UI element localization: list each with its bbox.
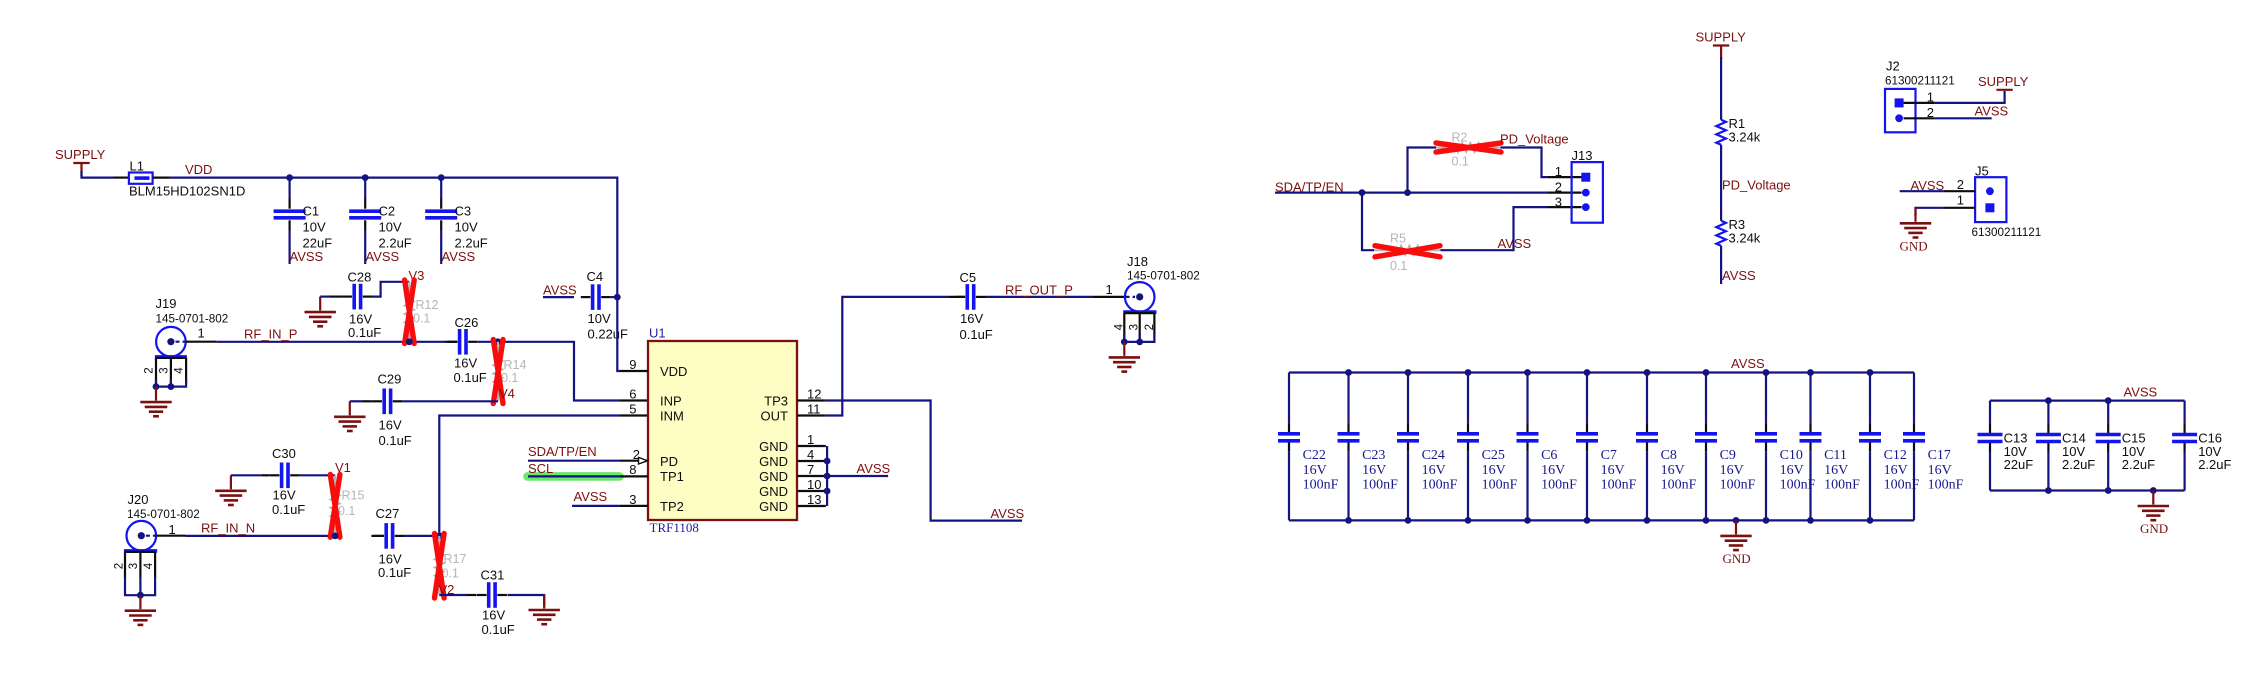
junction C4/VDD [614,294,621,301]
capacitor C2 10V 2.2uF [349,199,412,251]
svg-text:GND: GND [759,499,788,514]
junction GND10 [824,488,831,495]
capacitor C13 10V 22uF [1978,401,2034,491]
wire C29 to R14 [402,400,498,402]
pin 1 label J19 [198,326,205,341]
svg-text:C8: C8 [1661,448,1677,463]
svg-text:AVSS: AVSS [2124,385,2158,400]
svg-text:R2: R2 [1452,131,1468,145]
wire C1 bottom to AVSS [289,231,291,265]
wire R3 to AVSS [1720,246,1722,284]
svg-text:TP1: TP1 [660,469,684,484]
junction C1/rail [286,174,293,181]
net label AVSS (C4) [543,283,577,298]
svg-text:100nF: 100nF [1661,478,1697,493]
capacitor C4 10V 0.22uF [581,269,628,342]
capacitor C24 16V 100nF [1397,373,1458,521]
connector J20 145-0701-802 (SMA) [114,492,200,595]
svg-text:10V: 10V [303,220,326,235]
pin number 4 [807,447,814,462]
junction R12/RF_IN_P [406,338,413,345]
svg-text:GND: GND [1723,551,1751,566]
svg-text:100nF: 100nF [1928,478,1964,493]
wire VDD down to pin 9 [617,297,620,371]
svg-text:VDD: VDD [185,162,212,177]
pin 1 label J18 [1106,282,1113,297]
svg-text:11: 11 [807,402,821,417]
capacitor C30 16V 0.1uF [231,446,305,517]
svg-text:100nF: 100nF [1541,478,1577,493]
svg-text:C30: C30 [272,446,296,461]
svg-text:3: 3 [629,492,636,507]
pin stub GND 1 [797,445,826,447]
wire J19 pin1 [186,341,445,343]
svg-text:INM: INM [660,409,684,424]
svg-text:2: 2 [143,367,155,373]
pin number 1 [807,432,814,447]
wire INM riser [439,416,648,536]
svg-text:16V: 16V [1482,463,1506,478]
svg-text:12: 12 [807,387,821,402]
svg-text:TRF1108: TRF1108 [650,520,699,535]
junction C2/rail [362,174,369,181]
junction J18 pin4 [1121,339,1128,346]
svg-text:AVSS: AVSS [1975,104,2009,119]
svg-text:GND: GND [759,454,788,469]
wire C26 to INP [498,342,648,401]
svg-text:0.1uF: 0.1uF [378,565,411,580]
net label V3 [409,268,425,283]
svg-text:16V: 16V [1928,463,1952,478]
net label SDA/TP/EN (U1) [528,444,597,459]
red X over R5 [1375,246,1440,257]
svg-text:3: 3 [1555,195,1562,210]
resistor R3 3.24k [1716,217,1761,246]
pin GND names [759,439,788,514]
svg-text:J19: J19 [156,296,177,311]
svg-text:GND: GND [759,439,788,454]
pin number 8 [629,462,636,477]
pin number 2 (J13) [1555,180,1562,195]
svg-text:1: 1 [1106,282,1113,297]
svg-text:R15: R15 [342,489,365,503]
svg-text:3: 3 [159,367,171,373]
wire AVSS to C4 [543,296,574,298]
pin stub OUT 11 [797,414,826,416]
pin TP1 name [660,469,684,484]
wire AVSS top rail (C13-C16) [1990,400,2185,402]
net label AVSS (GND bus) [857,461,891,476]
svg-text:1: 1 [807,432,814,447]
svg-text:C2: C2 [379,204,396,219]
svg-text:SUPPLY: SUPPLY [1696,30,1747,45]
capacitor C11 16V 100nF [1800,373,1861,521]
svg-text:2.2uF: 2.2uF [2062,457,2095,472]
svg-text:RF_IN_P: RF_IN_P [244,327,297,342]
junction bottom rail x=1810.5 [1807,517,1814,524]
ground GND (cap bank) [1720,520,1751,566]
junction bottom rail x=1527.5 [1524,517,1531,524]
svg-text:AVSS: AVSS [1731,356,1765,371]
junction top rail x=1587 [1584,369,1591,376]
net label AVSS (TP3) [991,506,1025,521]
net label RF_IN_N [201,521,255,536]
wire SDA/TP/EN to J13 pin2 [1275,192,1582,194]
capacitor C15 10V 2.2uF [2096,401,2155,491]
pin number 9 [629,357,636,372]
svg-text:16V: 16V [1780,463,1804,478]
capacitor C25 16V 100nF [1457,373,1518,521]
svg-text:16V: 16V [1824,463,1848,478]
svg-text:RF_IN_N: RF_IN_N [201,521,255,536]
pin TP3 name [764,394,788,409]
wire SUPPLY to L1 [82,171,129,178]
capacitor C27 16V 0.1uF [371,506,439,580]
svg-text:R12: R12 [416,298,439,312]
pin number 2 [633,447,640,462]
net label V2 [439,582,455,597]
svg-text:C28: C28 [348,270,372,285]
svg-text:C10: C10 [1780,448,1803,463]
svg-text:AVSS: AVSS [1722,268,1756,283]
svg-text:OUT: OUT [761,409,789,424]
svg-text:100nF: 100nF [1303,478,1339,493]
svg-text:16V: 16V [1422,463,1446,478]
wire C4 to VDD rail [611,296,618,298]
red X over R15 [330,475,340,538]
svg-text:AVSS: AVSS [1911,178,1945,193]
svg-text:C22: C22 [1303,448,1326,463]
ground GND (C13-C16) [2138,491,2169,537]
svg-text:0.1: 0.1 [1390,259,1407,273]
wire C3 top [440,178,442,199]
svg-text:16V: 16V [1720,463,1744,478]
pin TP2 name [660,499,684,514]
junction bottom rail x=2108.2 [2105,487,2112,494]
svg-text:V4: V4 [499,386,515,401]
pin number 2 (J5) [1957,177,1964,192]
svg-text:GND: GND [759,484,788,499]
junction J20 pin3 [137,592,144,599]
wire C2 bottom to AVSS [364,231,366,265]
ground (J20) [125,595,156,625]
wire AVSS top rail (cap bank) [1289,371,1914,373]
wire C30 to R15 (net V1) [300,474,335,476]
capacitor C5 16V 0.1uF [949,270,1093,342]
svg-text:145-0701-802: 145-0701-802 [127,508,200,521]
junction bottom rail x=1870 [1867,517,1874,524]
pin VDD name [660,364,687,379]
capacitor C12 16V 100nF [1859,373,1920,521]
svg-text:3.24k: 3.24k [1729,130,1761,145]
ferrite bead L1 BLM15HD102SN1D [129,159,245,199]
net label SDA/TP/EN (J13) [1275,180,1344,195]
ground (J18) [1109,342,1140,372]
svg-text:L1: L1 [130,159,144,174]
svg-text:0.1: 0.1 [1452,155,1469,169]
svg-text:BLM15HD102SN1D: BLM15HD102SN1D [129,184,245,199]
svg-text:61300211121: 61300211121 [1972,226,2042,239]
wire J2 pin1 to SUPPLY [1904,91,2005,103]
pin 1 label J20 [169,522,176,537]
svg-text:0.1uF: 0.1uF [482,622,515,637]
wire branch down to R5 [1362,193,1374,251]
svg-text:16V: 16V [960,311,983,326]
svg-text:100nF: 100nF [1422,478,1458,493]
red X over R17 [435,534,445,599]
pin number 3 [629,492,636,507]
pin number 12 [807,387,821,402]
junction SDA/R2 branch [1404,189,1411,196]
junction top rail x=2048.4 [2045,397,2052,404]
svg-text:0.22uF: 0.22uF [588,327,629,342]
pin stub VDD 9 [620,370,648,372]
wire C1 top [289,178,291,199]
wire GND bus [826,446,828,506]
junction top rail x=1706 [1703,369,1710,376]
svg-text:4: 4 [807,447,814,462]
svg-text:4: 4 [174,367,186,374]
svg-text:C11: C11 [1824,448,1847,463]
red X over R14 [493,340,503,404]
wire to J18 pin1 [1093,296,1125,298]
svg-text:4: 4 [1113,323,1125,330]
pin number 1 (J13) [1555,164,1562,179]
red X over R2 [1436,143,1501,152]
svg-text:16V: 16V [482,608,505,623]
pin stub GND 7 [797,475,826,477]
svg-text:J2: J2 [1886,59,1900,74]
svg-text:100nF: 100nF [1482,478,1518,493]
svg-text:61300211121: 61300211121 [1885,75,1955,88]
svg-text:AVSS: AVSS [857,461,891,476]
net label VDD [185,162,212,177]
svg-text:16V: 16V [379,418,402,433]
svg-text:C4: C4 [587,269,604,284]
svg-text:9: 9 [629,357,636,372]
svg-text:AVSS: AVSS [290,249,324,264]
svg-text:C24: C24 [1422,448,1445,463]
wire J5 pin2 to AVSS [1900,190,1975,192]
capacitor C3 10V 2.2uF [425,199,488,251]
svg-text:PD_Voltage: PD_Voltage [1500,132,1569,147]
svg-text:C5: C5 [960,270,977,285]
junction top rail x=1870 [1867,369,1874,376]
capacitor C8 16V 100nF [1636,373,1697,521]
svg-text:4: 4 [143,562,155,569]
svg-text:1: 1 [1555,164,1562,179]
junction C26/R14 [494,338,501,345]
wire VDD rail [153,178,618,298]
junction GND7 [824,473,831,480]
svg-text:100nF: 100nF [1824,478,1860,493]
svg-text:5: 5 [629,402,636,417]
svg-text:16V: 16V [454,356,477,371]
svg-text:TP2: TP2 [660,499,684,514]
junction bottom rail GND [1733,517,1740,524]
junction bottom rail x=1706 [1703,517,1710,524]
supply symbol SUPPLY (J2) [1978,74,2029,90]
net label AVSS (TP2) [574,489,608,504]
pin PD name [660,454,678,469]
wire J5 pin1 to GND [1916,208,1976,216]
svg-text:C9: C9 [1720,448,1736,463]
net label RF_OUT_P [1005,283,1073,298]
svg-text:V1: V1 [335,460,351,475]
net label PD_Voltage (R1/R3) [1722,178,1791,193]
svg-text:INP: INP [660,394,682,409]
wire AVSS to TP2 [572,505,648,507]
svg-text:13: 13 [807,492,821,507]
junction bottom rail x=2048.4 [2045,487,2052,494]
wire branch up to R2 [1408,148,1437,193]
svg-text:10V: 10V [455,220,478,235]
svg-text:AVSS: AVSS [543,283,577,298]
svg-text:PD_Voltage: PD_Voltage [1722,178,1791,193]
svg-text:C12: C12 [1884,448,1907,463]
junction R15/RF_IN_N [332,533,339,540]
svg-text:16V: 16V [1362,463,1386,478]
op-amp U1 TRF1108 body [648,326,797,536]
svg-text:J5: J5 [1975,164,1989,179]
svg-text:0.1: 0.1 [338,504,355,518]
pin number 3 (J13) [1555,195,1562,210]
capacitor C10 16V 100nF [1755,373,1816,521]
svg-text:0.1: 0.1 [501,371,518,385]
pin stub GND 13 [797,505,826,507]
pin number 5 [629,402,636,417]
svg-text:C3: C3 [455,204,472,219]
svg-text:100nF: 100nF [1362,478,1398,493]
svg-text:AVSS: AVSS [442,249,476,264]
ground (C31) [529,595,560,625]
capacitor C9 16V 100nF [1695,373,1756,521]
svg-text:145-0701-802: 145-0701-802 [1127,270,1200,283]
wire SCL to TP1 [528,475,648,477]
svg-text:GND: GND [1900,239,1928,254]
svg-text:8: 8 [629,462,636,477]
net label AVSS (J5) [1911,178,1945,193]
svg-text:2: 2 [1555,180,1562,195]
net label AVSS (C1) [290,249,324,264]
supply symbol SUPPLY (R1) [1696,30,1747,59]
resistor R12 0.1 (not populated) [405,282,439,342]
wire R5/AVSS to J13 pin3 [1441,207,1582,250]
pin number 1 (J2) [1927,90,1934,105]
net label AVSS (J2) [1975,104,2009,119]
svg-text:C25: C25 [1482,448,1505,463]
supply symbol SUPPLY (left) [55,147,106,176]
junction top rail x=2108.2 [2105,397,2112,404]
capacitor C22 16V 100nF [1278,373,1339,521]
wire J2 pin2 to AVSS [1904,117,1992,119]
capacitor C23 16V 100nF [1338,373,1399,521]
svg-text:GND: GND [2140,521,2168,536]
capacitor C14 10V 2.2uF [2036,401,2095,491]
svg-text:22uF: 22uF [2004,457,2034,472]
junction top rail x=1766 [1763,369,1770,376]
net label SCL [528,461,553,476]
pin number 11 [807,402,821,417]
connector J5 61300211121 [1972,164,2042,240]
svg-text:C26: C26 [455,315,479,330]
junction top rail x=1810.5 [1807,369,1814,376]
net label AVSS (J13 pin3) [1498,236,1532,251]
svg-text:10V: 10V [379,220,402,235]
pin number 6 [629,387,636,402]
ground (C30) [215,475,246,505]
svg-text:0.1uF: 0.1uF [348,325,381,340]
svg-text:VDD: VDD [660,364,687,379]
wire GND bottom rail (cap bank) [1289,519,1914,521]
junction bottom rail GND (C13-C16) [2150,487,2157,494]
svg-text:6: 6 [629,387,636,402]
ground (J19) [140,387,171,417]
wire C2 top [364,178,366,199]
resistor R2 0.1 (not populated) [1436,131,1501,169]
capacitor C31 16V 0.1uF [439,568,544,638]
resistor R5 0.1 (not populated) [1374,232,1441,274]
svg-text:0.1uF: 0.1uF [379,433,412,448]
junction top rail x=1527.5 [1524,369,1531,376]
svg-text:10: 10 [807,477,821,492]
svg-text:J20: J20 [128,492,149,507]
pin number 10 [807,477,821,492]
svg-text:C31: C31 [481,568,505,583]
capacitor C7 16V 100nF [1576,373,1637,521]
wire SUPPLY to R1 [1720,57,1722,120]
svg-text:GND: GND [759,469,788,484]
svg-text:16V: 16V [273,488,296,503]
svg-text:AVSS: AVSS [991,506,1025,521]
svg-text:R5: R5 [1390,232,1406,246]
connector J19 145-0701-802 (SMA) [143,296,228,387]
net label AVSS (R3) [1722,268,1756,283]
wire R2 to J13 pin1 [1501,148,1582,178]
svg-text:0.1: 0.1 [413,312,430,326]
svg-text:0.1: 0.1 [442,567,459,581]
svg-text:C7: C7 [1601,448,1617,463]
junction bottom rail x=1468 [1465,517,1472,524]
svg-text:AVSS: AVSS [574,489,608,504]
svg-text:SCL: SCL [528,461,553,476]
svg-text:C17: C17 [1928,448,1951,463]
svg-text:16V: 16V [1884,463,1908,478]
net label AVSS (cap bank) [1731,356,1765,371]
svg-text:U1: U1 [649,326,666,341]
junction J19 pin2 [153,383,160,390]
pin stub TP3 12 [797,399,826,401]
svg-text:0.1uF: 0.1uF [960,327,993,342]
svg-text:C27: C27 [376,506,400,521]
svg-text:145-0701-802: 145-0701-802 [156,313,229,326]
resistor R17 0.1 (not populated) [435,536,467,595]
svg-text:RF_OUT_P: RF_OUT_P [1005,283,1073,298]
wire SDA/TP/EN to PD [528,460,638,462]
wire C3 bottom to AVSS [440,231,442,265]
svg-text:C23: C23 [1362,448,1385,463]
pin number 7 [807,462,814,477]
net label AVSS (C3) [442,249,476,264]
junction top rail x=1408 [1405,369,1412,376]
svg-text:100nF: 100nF [1601,478,1637,493]
svg-text:SDA/TP/EN: SDA/TP/EN [528,444,597,459]
input arrow at PD pin 2 [639,457,648,464]
resistor R14 0.1 (not populated) [494,342,527,402]
pin stub GND 4 [797,460,826,462]
net label AVSS (C2) [366,249,400,264]
svg-text:0.1uF: 0.1uF [272,502,305,517]
